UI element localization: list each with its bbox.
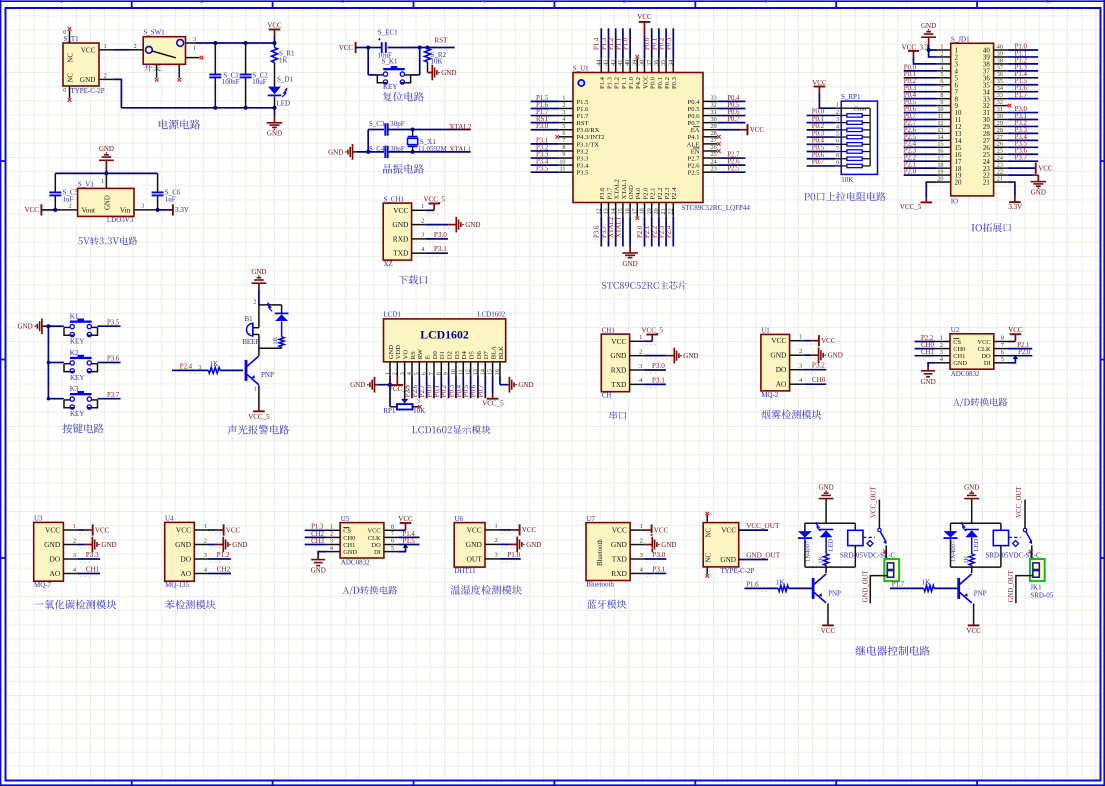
svg-text:2: 2 bbox=[495, 537, 498, 544]
svg-text:2: 2 bbox=[640, 537, 643, 544]
svg-text:P3.1/TX: P3.1/TX bbox=[577, 141, 600, 148]
net P0.2 wire bbox=[807, 129, 835, 131]
svg-text:4: 4 bbox=[836, 124, 839, 130]
capacitor C4 30pF bbox=[384, 146, 386, 158]
svg-text:3: 3 bbox=[204, 552, 207, 559]
svg-text:4: 4 bbox=[940, 64, 943, 71]
svg-text:D5: D5 bbox=[469, 351, 476, 360]
net P1.6 base wire bbox=[744, 587, 778, 589]
svg-text:S_V1: S_V1 bbox=[78, 180, 94, 188]
svg-text:10: 10 bbox=[559, 158, 565, 165]
svg-text:P1.6: P1.6 bbox=[577, 106, 590, 113]
svg-text:VCC: VCC bbox=[721, 527, 736, 535]
svg-text:5: 5 bbox=[836, 131, 839, 137]
diode 1N4007 bbox=[950, 523, 952, 531]
svg-text:29: 29 bbox=[711, 123, 717, 130]
svg-text:20: 20 bbox=[955, 180, 962, 187]
svg-text:VCC_5: VCC_5 bbox=[482, 399, 504, 407]
svg-text:ADC0832: ADC0832 bbox=[341, 559, 370, 567]
capacitor C5 1uF bbox=[54, 173, 56, 192]
svg-text:S_C3: S_C3 bbox=[369, 120, 385, 128]
svg-text:10K: 10K bbox=[841, 176, 853, 184]
svg-text:P0.3: P0.3 bbox=[666, 37, 673, 50]
svg-text:D1: D1 bbox=[439, 351, 446, 359]
svg-text:GND: GND bbox=[175, 540, 192, 549]
svg-text:EA: EA bbox=[691, 127, 700, 134]
U1 body bbox=[573, 73, 703, 203]
svg-text:P3.7: P3.7 bbox=[1015, 155, 1028, 162]
svg-text:P0.3: P0.3 bbox=[812, 130, 825, 137]
svg-text:2: 2 bbox=[69, 203, 72, 210]
ground GND bbox=[274, 108, 276, 117]
svg-text:RXD: RXD bbox=[393, 234, 409, 243]
svg-text:14: 14 bbox=[479, 369, 486, 375]
svg-text:11: 11 bbox=[955, 117, 962, 124]
svg-text:P3.5: P3.5 bbox=[107, 319, 120, 326]
svg-text:GND: GND bbox=[388, 345, 395, 360]
svg-text:P1.5: P1.5 bbox=[403, 538, 416, 545]
svg-text:VCC: VCC bbox=[467, 525, 482, 534]
svg-text:P1.4: P1.4 bbox=[599, 76, 606, 89]
svg-text:P0.6: P0.6 bbox=[812, 152, 825, 159]
svg-text:7: 7 bbox=[905, 0, 909, 5]
title IO拓展口 bbox=[972, 223, 1012, 232]
ground GND for R2 bbox=[427, 62, 429, 73]
svg-text:RST: RST bbox=[577, 120, 589, 127]
svg-text:VCC_5: VCC_5 bbox=[423, 196, 445, 204]
svg-text:17: 17 bbox=[937, 155, 943, 162]
power port 3.3V for pin 21 bbox=[1008, 182, 1015, 197]
A/D converter U5 pin 8 VCC bbox=[398, 529, 405, 531]
svg-text:VO: VO bbox=[403, 350, 410, 360]
svg-text:7: 7 bbox=[428, 372, 435, 375]
power port VCC for pin 2 bbox=[396, 376, 398, 385]
svg-text:GND: GND bbox=[392, 220, 409, 229]
svg-text:P4.1: P4.1 bbox=[688, 134, 700, 141]
svg-text:3: 3 bbox=[940, 57, 943, 64]
svg-text:RST: RST bbox=[536, 116, 549, 123]
svg-text:S_EC1: S_EC1 bbox=[378, 28, 398, 36]
ground GND top bbox=[252, 282, 267, 284]
title A/D转换电路 bbox=[953, 398, 1007, 408]
wire blade to JK pin 1 bbox=[1031, 545, 1033, 564]
svg-text:NC: NC bbox=[706, 528, 713, 538]
svg-text:13: 13 bbox=[472, 369, 479, 375]
svg-text:8: 8 bbox=[836, 153, 839, 159]
svg-text:Com: Com bbox=[854, 106, 866, 113]
svg-text:VCC: VCC bbox=[176, 526, 191, 535]
relay switch dashed link bbox=[863, 536, 875, 538]
svg-text:GND: GND bbox=[628, 185, 635, 200]
svg-text:B1: B1 bbox=[245, 315, 254, 323]
svg-text:1: 1 bbox=[421, 203, 424, 210]
wire to C4 bbox=[357, 151, 384, 153]
resistor R1 1K bbox=[274, 43, 276, 48]
svg-text:1: 1 bbox=[104, 43, 107, 50]
svg-text:2: 2 bbox=[134, 43, 137, 50]
svg-text:NC: NC bbox=[706, 553, 713, 563]
svg-text:6: 6 bbox=[836, 139, 839, 145]
svg-text:P2.7: P2.7 bbox=[419, 384, 426, 397]
svg-text:GND: GND bbox=[80, 76, 96, 84]
svg-text:23: 23 bbox=[997, 162, 1003, 169]
svg-text:4: 4 bbox=[562, 116, 565, 123]
svg-text:P3.4: P3.4 bbox=[577, 163, 590, 170]
svg-text:P1.0: P1.0 bbox=[623, 37, 630, 50]
crystal X1 11.0592M bbox=[411, 128, 415, 132]
svg-text:8: 8 bbox=[1046, 0, 1050, 5]
svg-text:P3.3: P3.3 bbox=[536, 151, 549, 158]
svg-text:26: 26 bbox=[983, 145, 990, 152]
svg-text:P1.0: P1.0 bbox=[628, 76, 635, 89]
svg-text:32: 32 bbox=[983, 103, 990, 110]
svg-text:PNP: PNP bbox=[828, 590, 841, 598]
A/D converter U2 left net wires bbox=[915, 341, 936, 343]
svg-text:VCC: VCC bbox=[95, 526, 110, 534]
svg-text:DI: DI bbox=[374, 549, 381, 556]
svg-text:37: 37 bbox=[983, 68, 990, 75]
svg-text:4: 4 bbox=[482, 0, 486, 5]
svg-text:P2.4: P2.4 bbox=[904, 141, 917, 148]
svg-text:28: 28 bbox=[711, 130, 717, 137]
svg-text:38: 38 bbox=[997, 57, 1003, 64]
svg-text:15: 15 bbox=[937, 141, 943, 148]
title 一氧化碳检测模块 bbox=[34, 600, 116, 610]
svg-text:P1.7: P1.7 bbox=[1015, 92, 1028, 99]
pot left pin to GND net bbox=[389, 385, 391, 407]
power port VCC bottom bbox=[973, 622, 975, 625]
svg-text:VCC: VCC bbox=[226, 526, 241, 534]
svg-text:VCC: VCC bbox=[642, 75, 649, 89]
svg-text:P2.1: P2.1 bbox=[650, 188, 657, 200]
svg-text:2: 2 bbox=[940, 50, 943, 57]
svg-text:GND: GND bbox=[232, 541, 247, 549]
svg-text:35: 35 bbox=[997, 78, 1003, 85]
svg-text:D6: D6 bbox=[476, 351, 483, 360]
svg-text:29: 29 bbox=[983, 124, 990, 131]
svg-text:8: 8 bbox=[955, 96, 959, 103]
svg-text:P3.6: P3.6 bbox=[594, 225, 601, 238]
svg-text:P1.7: P1.7 bbox=[577, 113, 590, 120]
svg-text:CH2: CH2 bbox=[311, 531, 324, 538]
svg-text:P2.6: P2.6 bbox=[688, 163, 701, 170]
A/D converter U5 left net wires bbox=[305, 529, 326, 531]
base resistor 1K bbox=[172, 369, 208, 371]
svg-text:1N4007: 1N4007 bbox=[950, 540, 957, 562]
svg-text:36: 36 bbox=[997, 71, 1003, 78]
A/D converter U2 body bbox=[950, 334, 994, 369]
svg-text:26: 26 bbox=[711, 144, 717, 151]
svg-text:P3.0: P3.0 bbox=[434, 231, 447, 239]
svg-text:10uF: 10uF bbox=[252, 78, 267, 86]
svg-text:BLK: BLK bbox=[498, 346, 505, 359]
svg-text:P0.7: P0.7 bbox=[688, 120, 701, 127]
LCD1 body bbox=[384, 319, 506, 362]
svg-text:P0.2: P0.2 bbox=[904, 78, 917, 85]
svg-text:DO: DO bbox=[50, 555, 61, 564]
svg-text:P0.5: P0.5 bbox=[463, 384, 470, 397]
svg-text:DO: DO bbox=[371, 542, 381, 549]
wire gnd stem bbox=[971, 499, 973, 523]
svg-text:U1: U1 bbox=[761, 327, 770, 335]
svg-text:31: 31 bbox=[983, 110, 990, 117]
relay switch blade bbox=[880, 531, 886, 542]
title 串口 bbox=[610, 411, 627, 420]
title 复位电路 bbox=[383, 92, 424, 102]
svg-text:GND: GND bbox=[819, 483, 834, 491]
svg-text:9: 9 bbox=[836, 160, 839, 166]
svg-text:19: 19 bbox=[937, 169, 943, 176]
svg-text:P0.2: P0.2 bbox=[664, 77, 671, 89]
svg-text:P0.6: P0.6 bbox=[471, 384, 478, 397]
svg-text:GND: GND bbox=[953, 360, 967, 367]
svg-text:2: 2 bbox=[330, 531, 333, 538]
svg-text:6: 6 bbox=[955, 82, 959, 89]
svg-text:30: 30 bbox=[997, 113, 1003, 120]
svg-text:7: 7 bbox=[940, 85, 943, 92]
svg-text:S_CH1: S_CH1 bbox=[384, 195, 405, 203]
potentiometer RP1 10K for pin 3 VO bbox=[404, 376, 406, 399]
svg-text:DO: DO bbox=[981, 353, 991, 360]
svg-text:10: 10 bbox=[450, 369, 457, 375]
svg-text:VCC_OUT: VCC_OUT bbox=[746, 522, 780, 530]
svg-text:P2.0: P2.0 bbox=[1018, 349, 1031, 356]
title 下载口 bbox=[398, 275, 427, 284]
svg-text:P0.6: P0.6 bbox=[904, 106, 917, 113]
svg-text:26: 26 bbox=[997, 141, 1003, 148]
svg-text:24: 24 bbox=[997, 155, 1003, 162]
resistor R2 10K bbox=[426, 46, 430, 50]
SW1 pin 3 bbox=[186, 42, 196, 44]
svg-text:5: 5 bbox=[955, 75, 959, 82]
wire T1 pin1 to SW1 bbox=[99, 49, 113, 51]
svg-text:P2.5: P2.5 bbox=[727, 166, 740, 173]
svg-text:GND_OUT: GND_OUT bbox=[1008, 569, 1015, 602]
svg-text:22: 22 bbox=[997, 169, 1003, 176]
svg-text:LCD1602: LCD1602 bbox=[477, 311, 506, 319]
V1 pin 3 bbox=[134, 209, 158, 211]
svg-text:P1.7: P1.7 bbox=[892, 581, 905, 588]
svg-text:P2.4: P2.4 bbox=[671, 187, 678, 200]
svg-text:1: 1 bbox=[955, 48, 959, 55]
svg-text:DI: DI bbox=[984, 360, 991, 367]
wire bottom rail bbox=[121, 107, 274, 109]
download port XZ connector CH1 body bbox=[383, 203, 411, 260]
svg-text:CH0: CH0 bbox=[343, 535, 355, 542]
A/D converter U5 pin 7 net P1.4 bbox=[398, 536, 419, 538]
svg-text:P1.0: P1.0 bbox=[507, 551, 520, 559]
svg-text:P3.2: P3.2 bbox=[577, 148, 589, 155]
svg-text:GND: GND bbox=[99, 145, 114, 153]
svg-text:1: 1 bbox=[59, 0, 63, 5]
diode 1N4007 bbox=[804, 523, 806, 531]
TYPE-C-2P output connector body bbox=[703, 523, 739, 567]
svg-text:P1.1: P1.1 bbox=[615, 38, 622, 50]
svg-text:P0.0: P0.0 bbox=[427, 384, 434, 397]
svg-text:P0.5: P0.5 bbox=[904, 99, 917, 106]
svg-text:MQ-135: MQ-135 bbox=[165, 581, 190, 589]
svg-text:12: 12 bbox=[937, 120, 943, 127]
svg-text:CLK: CLK bbox=[978, 346, 991, 353]
svg-text:VCC: VCC bbox=[821, 337, 836, 345]
V1 pin 2 bbox=[55, 209, 77, 211]
svg-text:DO: DO bbox=[180, 555, 191, 564]
capacitor C2 10uF bbox=[245, 43, 247, 75]
svg-text:P3.5: P3.5 bbox=[577, 170, 590, 177]
svg-text:K3: K3 bbox=[70, 385, 79, 393]
svg-text:34: 34 bbox=[997, 85, 1003, 92]
svg-text:STC89C52RC_LQFP44: STC89C52RC_LQFP44 bbox=[681, 204, 750, 212]
svg-text:P0.4: P0.4 bbox=[904, 92, 917, 99]
svg-text:GND: GND bbox=[44, 540, 61, 549]
svg-text:P3.1: P3.1 bbox=[1015, 113, 1027, 120]
svg-text:GND: GND bbox=[18, 323, 33, 331]
svg-text:P2.6: P2.6 bbox=[412, 384, 419, 397]
svg-text:JK1: JK1 bbox=[1030, 584, 1042, 592]
svg-text:1: 1 bbox=[940, 335, 943, 342]
title 按键电路 bbox=[62, 424, 103, 434]
svg-text:16: 16 bbox=[955, 152, 962, 159]
svg-text:P2.3: P2.3 bbox=[904, 148, 917, 155]
relay unit GND top bbox=[964, 498, 979, 500]
RP1 pin 1 bbox=[835, 107, 841, 109]
svg-text:VCC: VCC bbox=[368, 528, 381, 535]
title LCD1602显示模块 bbox=[412, 425, 490, 434]
svg-text:P2.0: P2.0 bbox=[637, 225, 644, 238]
svg-text:1: 1 bbox=[204, 523, 207, 530]
ground GND left bbox=[41, 318, 43, 334]
svg-text:P3.6: P3.6 bbox=[107, 356, 120, 363]
relay switch dashed link bbox=[1009, 536, 1021, 538]
svg-text:GND_OUT: GND_OUT bbox=[746, 552, 781, 560]
net GND_OUT wire from JK pin 2 bbox=[1016, 576, 1033, 604]
svg-text:P0.1: P0.1 bbox=[651, 38, 658, 50]
svg-text:P2.0: P2.0 bbox=[642, 187, 649, 200]
svg-text:TXD: TXD bbox=[393, 249, 409, 258]
net P3.7 wire bbox=[98, 398, 121, 400]
svg-text:P2.2: P2.2 bbox=[921, 335, 934, 342]
svg-text:NC: NC bbox=[68, 53, 75, 63]
wire top rail bbox=[55, 172, 157, 174]
svg-text:P2.0: P2.0 bbox=[904, 169, 917, 176]
net VCC_OUT wire bbox=[739, 529, 768, 531]
svg-text:P3.3: P3.3 bbox=[1015, 127, 1028, 134]
svg-text:P2.1: P2.1 bbox=[1017, 342, 1029, 349]
svg-text:VCC: VCC bbox=[611, 337, 626, 346]
svg-text:11.0592M: 11.0592M bbox=[418, 145, 447, 153]
svg-text:P2.4: P2.4 bbox=[180, 364, 193, 371]
svg-text:33: 33 bbox=[997, 92, 1003, 99]
svg-text:6: 6 bbox=[391, 538, 394, 545]
svg-text:2: 2 bbox=[204, 537, 207, 544]
wire top rail bbox=[805, 522, 855, 524]
svg-text:U6: U6 bbox=[455, 515, 464, 523]
svg-text:1: 1 bbox=[384, 372, 391, 375]
wire bottom rail bbox=[805, 566, 855, 568]
svg-text:23: 23 bbox=[983, 166, 990, 173]
svg-text:P3.3: P3.3 bbox=[577, 155, 590, 162]
svg-text:P1.6: P1.6 bbox=[536, 102, 549, 109]
svg-text:P1.2: P1.2 bbox=[217, 551, 230, 559]
svg-text:32: 32 bbox=[997, 99, 1003, 106]
svg-text:7: 7 bbox=[955, 89, 959, 96]
svg-text:NC: NC bbox=[68, 73, 75, 83]
svg-text:P3.0: P3.0 bbox=[652, 551, 665, 559]
pot right pin no-connect bbox=[413, 406, 419, 408]
svg-text:P1.6: P1.6 bbox=[746, 581, 759, 588]
svg-text:LCD1: LCD1 bbox=[384, 311, 402, 319]
svg-text:2: 2 bbox=[955, 55, 959, 62]
svg-text:P0.2: P0.2 bbox=[441, 384, 448, 397]
collector wire bbox=[971, 567, 973, 573]
svg-text:TYPE-C-2P: TYPE-C-2P bbox=[70, 87, 104, 95]
svg-text:9: 9 bbox=[955, 103, 959, 110]
net P0.6 wire bbox=[807, 158, 835, 160]
svg-text:CH0: CH0 bbox=[921, 342, 934, 349]
svg-text:34: 34 bbox=[667, 60, 674, 66]
power port VCC_5 for pin 15 BLA bbox=[492, 376, 494, 393]
U1 part marker bbox=[578, 80, 584, 86]
push button K1 KEY bbox=[48, 325, 63, 327]
svg-text:P2.2: P2.2 bbox=[657, 188, 664, 200]
power port VCC left bbox=[41, 209, 55, 211]
svg-text:U2: U2 bbox=[951, 326, 960, 334]
svg-text:5: 5 bbox=[940, 71, 943, 78]
svg-text:P1.1: P1.1 bbox=[621, 77, 628, 89]
A/D converter U2 pin 4 ground bbox=[928, 363, 936, 368]
svg-text:8: 8 bbox=[562, 144, 565, 151]
capacitor C1 100nF bbox=[214, 43, 216, 75]
regulator V1 LDO3V3 bbox=[105, 173, 107, 188]
svg-text:9: 9 bbox=[443, 372, 450, 375]
svg-text:P0.2: P0.2 bbox=[659, 37, 666, 50]
relay NC contact bbox=[867, 541, 873, 547]
svg-text:25: 25 bbox=[997, 148, 1003, 155]
svg-text:P1.6: P1.6 bbox=[1015, 85, 1028, 92]
power port 3.3V right bbox=[158, 209, 173, 211]
RP1 internal resistor 2 bbox=[847, 121, 862, 124]
svg-text:40: 40 bbox=[624, 60, 631, 66]
svg-text:P1.1: P1.1 bbox=[1015, 50, 1027, 57]
alarm LED bbox=[275, 312, 289, 314]
svg-text:PNP: PNP bbox=[974, 590, 987, 598]
svg-text:VCC: VCC bbox=[771, 336, 786, 345]
svg-text:6: 6 bbox=[940, 78, 943, 85]
relay NC contact bbox=[1013, 541, 1019, 547]
svg-text:XTAL1: XTAL1 bbox=[621, 179, 628, 199]
svg-text:GND: GND bbox=[720, 556, 736, 564]
svg-text:18: 18 bbox=[639, 208, 646, 214]
svg-text:OUT: OUT bbox=[467, 554, 483, 563]
svg-text:KEY: KEY bbox=[383, 83, 397, 91]
svg-text:14: 14 bbox=[955, 138, 962, 145]
title 烟雾检测模块 bbox=[761, 410, 821, 419]
svg-text:1: 1 bbox=[640, 523, 643, 530]
svg-text:CH3: CH3 bbox=[311, 538, 324, 545]
svg-text:VCC: VCC bbox=[81, 46, 96, 54]
net XTAL1 wire bbox=[388, 151, 471, 153]
svg-text:Vin: Vin bbox=[120, 207, 131, 215]
svg-text:17: 17 bbox=[631, 208, 638, 214]
svg-text:P1.4: P1.4 bbox=[594, 37, 601, 50]
svg-text:P3.3: P3.3 bbox=[86, 551, 99, 559]
svg-text:CH2: CH2 bbox=[217, 566, 231, 574]
svg-text:P1.2: P1.2 bbox=[608, 37, 615, 50]
svg-text:P0.7: P0.7 bbox=[478, 384, 485, 397]
ground GND left of LCD bbox=[374, 377, 376, 393]
SW1 pin 1 no-connect bbox=[186, 57, 200, 59]
svg-text:EN: EN bbox=[691, 148, 700, 155]
